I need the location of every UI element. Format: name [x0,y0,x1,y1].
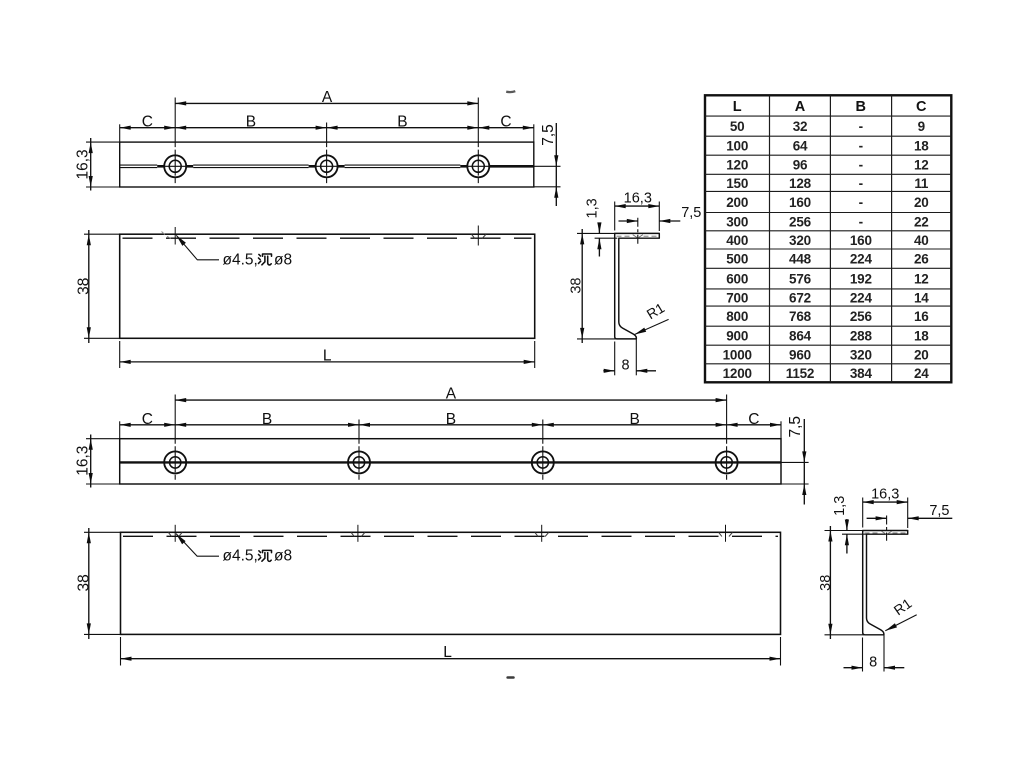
svg-text:40: 40 [914,233,929,248]
svg-text:14: 14 [914,290,929,305]
svg-text:12: 12 [914,158,929,173]
svg-text:672: 672 [789,290,811,305]
node: hole1 centerline drawing2 [174,395,176,439]
svg-text:ø4.5,: ø4.5, [223,251,258,268]
stray watermark dash top [506,90,515,93]
svg-text:L: L [443,644,452,661]
dimension 38 side2 [829,526,831,639]
wire: drawing1 front-view outline [120,234,535,338]
wire: drawing1 top-view bar outline [120,142,534,187]
svg-text:ø8: ø8 [274,251,292,268]
svg-text:1000: 1000 [723,347,752,362]
glyph chen (countersink) drawing2 [259,550,272,561]
node: drawing1 front hole3 tick [477,226,479,246]
wire: drawing2 top-view bar outline [120,439,781,484]
wire: extension lines bar corners drawing1 [119,124,121,142]
svg-text:160: 160 [850,233,872,248]
wire: side1 hidden countersink dashes [617,235,633,237]
wire: countersink marks hole3 front1 [472,234,475,238]
svg-text:B: B [856,99,866,115]
hole 1 drawing1 horizontal center cross [162,165,188,167]
svg-text:8: 8 [621,358,629,374]
dimension 38 drawing2 front [88,528,90,639]
dimension A drawing2 [175,399,726,401]
svg-text:224: 224 [850,252,873,267]
svg-text:16: 16 [914,309,929,324]
svg-text:384: 384 [850,366,873,381]
svg-text:1,3: 1,3 [832,496,848,516]
svg-text:18: 18 [914,139,929,154]
svg-text:ø8: ø8 [274,548,292,565]
svg-text:50: 50 [730,119,745,134]
dimension 7,5 drawing1 [555,123,557,206]
dimension 16,3 drawing2 [90,435,92,488]
svg-text:24: 24 [914,366,929,381]
svg-text:16,3: 16,3 [74,446,91,476]
svg-text:1152: 1152 [786,366,815,381]
svg-text:-: - [859,139,863,154]
svg-text:7,5: 7,5 [540,124,557,146]
svg-text:100: 100 [726,139,748,154]
dimension 16,3 side2 [863,501,908,503]
node: drawing2 front hole4 tick [725,525,727,542]
dimension line C-B-B-B-C drawing2 [120,424,781,426]
svg-text:-: - [859,195,863,210]
node: hole1 vertical centerline / extension [174,98,176,143]
svg-text:38: 38 [75,574,92,591]
wire: drawing2 thick slot line [120,461,781,463]
hole 2 drawing1 (inner circle) [321,160,333,172]
svg-text:38: 38 [75,278,92,295]
svg-text:128: 128 [789,176,812,191]
wire: countersink marks hole3 front2 [535,532,538,536]
svg-text:32: 32 [793,119,808,134]
svg-text:12: 12 [914,272,929,287]
dimension 8 side2 [844,667,863,669]
svg-text:11: 11 [914,176,929,191]
svg-text:A: A [446,386,457,403]
svg-text:B: B [630,411,640,428]
svg-text:500: 500 [726,252,748,267]
svg-text:C: C [748,411,759,428]
wire: drawing1 groove double lines [120,164,158,166]
dimension L drawing2 front [121,658,781,660]
node: hole3 vertical centerline / extension [477,98,479,143]
svg-text:-: - [859,119,863,134]
hole 4 drawing2 (outer circle) [716,451,738,473]
svg-text:7,5: 7,5 [929,503,949,519]
node: side1 hole centerline [637,218,639,245]
wire: drawing2 front-view outline [121,532,781,634]
dimension 38 side1 [581,229,583,343]
node: side2 hole centerline [886,516,888,541]
svg-text:400: 400 [726,233,748,248]
svg-text:200: 200 [726,195,748,210]
svg-text:160: 160 [789,195,811,210]
wire: side-view1 profile outline [615,233,660,339]
wire: countersink marks hole1 front1 [162,232,165,235]
hole 1 drawing1 (outer circle) [164,155,186,177]
svg-text:300: 300 [726,215,748,230]
svg-text:800: 800 [726,309,748,324]
hole 3 drawing2 (inner circle) [537,457,548,468]
svg-text:864: 864 [789,329,812,344]
svg-text:B: B [397,114,407,131]
svg-text:20: 20 [914,195,929,210]
wire: countersink marks hole1 front2 [168,532,171,536]
hole 1 drawing2 (inner circle) [170,457,181,468]
wire: side2 hidden countersink dashes [865,532,881,534]
svg-text:16,3: 16,3 [74,149,91,179]
svg-text:C: C [916,99,927,115]
dimension 16,3 side1 [615,205,660,207]
svg-text:96: 96 [793,158,808,173]
svg-text:38: 38 [569,278,585,294]
dimension 7,5 side1 [619,220,638,222]
svg-text:L: L [323,348,332,365]
leader arrow hole note drawing2 [176,534,186,545]
svg-text:C: C [142,114,153,131]
dimension 7,5 drawing2 [803,419,805,505]
svg-text:20: 20 [914,347,929,362]
svg-text:7,5: 7,5 [681,205,701,221]
svg-text:-: - [859,176,863,191]
dimension L drawing1 front [120,361,535,363]
svg-text:B: B [262,411,272,428]
svg-text:1200: 1200 [723,366,752,381]
stray watermark dash bottom [508,676,514,679]
svg-text:960: 960 [789,347,811,362]
wire: drawing1 hidden groove dashed line [123,237,532,239]
wire: side-view2 profile outline [863,531,908,635]
svg-text:1,3: 1,3 [584,198,600,218]
svg-text:26: 26 [914,252,929,267]
hole 2 drawing1 (outer circle) [316,155,338,177]
svg-text:R1: R1 [644,299,668,322]
svg-text:192: 192 [850,272,872,287]
hole 3 drawing1 (inner circle) [472,160,484,172]
svg-text:C: C [500,114,511,131]
svg-text:16,3: 16,3 [624,190,652,206]
svg-text:448: 448 [789,252,812,267]
svg-text:7,5: 7,5 [787,416,804,438]
svg-text:-: - [859,158,863,173]
svg-text:150: 150 [726,176,748,191]
hole 3 drawing1 horizontal center cross [465,165,491,167]
dimension 1,3 side1 [598,223,600,234]
svg-text:L: L [733,99,742,115]
node: drawing2 front hole1 tick [174,525,176,542]
svg-text:120: 120 [726,158,748,173]
hole 1 drawing1 (inner circle) [169,160,181,172]
svg-text:64: 64 [793,139,808,154]
table column lines [769,95,771,382]
leader R1 side2 [885,615,916,631]
wire: countersink marks hole2 front2 [351,532,354,536]
glyph chen (countersink) drawing1 [259,254,272,265]
svg-text:256: 256 [789,215,812,230]
hole 2 drawing1 horizontal center cross [314,165,340,167]
dimension 1,3 side2 [846,519,848,531]
node: drawing2 front hole3 tick [541,525,543,542]
hole 4 drawing2 (inner circle) [721,457,732,468]
wire: extension lines bar corners drawing2 [119,421,121,438]
svg-text:A: A [795,99,806,115]
svg-text:224: 224 [850,290,873,305]
table row lines [705,115,951,117]
svg-text:256: 256 [850,309,873,324]
dimension 16,3 drawing1 [90,138,92,191]
hole 3 drawing2 (outer circle) [532,451,554,473]
svg-text:288: 288 [850,329,873,344]
hole 1 drawing2 (outer circle) [164,451,186,473]
dimension 8 side1 [603,370,614,372]
svg-text:9: 9 [918,119,925,134]
hole 2 drawing2 (outer circle) [348,451,370,473]
node: hole4 centerline drawing2 [726,395,728,439]
svg-text:900: 900 [726,329,748,344]
svg-text:R1: R1 [891,595,915,618]
svg-text:16,3: 16,3 [871,486,899,502]
svg-text:A: A [322,89,333,106]
svg-text:320: 320 [850,347,872,362]
svg-text:C: C [142,411,153,428]
svg-text:ø4.5,: ø4.5, [223,548,258,565]
svg-text:576: 576 [789,272,812,287]
wire: drawing2 hidden groove dashed line [123,535,778,537]
svg-text:38: 38 [818,575,834,591]
wire: drawing1 thick slot segments [157,165,164,168]
dimension 38 drawing1 front [88,230,90,343]
svg-text:B: B [246,114,256,131]
dimension line C-B-B-C drawing1 [120,127,534,129]
svg-text:18: 18 [914,329,929,344]
svg-text:22: 22 [914,215,929,230]
dimension 7,5 side2 [867,517,887,519]
node: drawing2 front hole2 tick [357,525,359,542]
svg-text:768: 768 [789,309,812,324]
svg-text:320: 320 [789,233,811,248]
table outer border [705,95,951,382]
hole 3 drawing1 (outer circle) [467,155,489,177]
leader R1 side1 [634,319,668,334]
node: hole2 centerline drawing2 [358,420,360,439]
wire: countersink marks hole4 front2 [719,532,722,536]
svg-text:600: 600 [726,272,748,287]
svg-text:B: B [446,411,456,428]
leader arrow hole note drawing1 [176,235,186,246]
node: drawing1 front hole1 tick [174,227,176,245]
svg-text:700: 700 [726,290,748,305]
node: hole3 centerline drawing2 [542,420,544,439]
node: hole2 vertical centerline / extension [326,123,328,143]
svg-text:8: 8 [869,654,877,670]
hole 2 drawing2 (inner circle) [353,457,364,468]
dimension A drawing1 [175,102,478,104]
svg-text:-: - [859,215,863,230]
